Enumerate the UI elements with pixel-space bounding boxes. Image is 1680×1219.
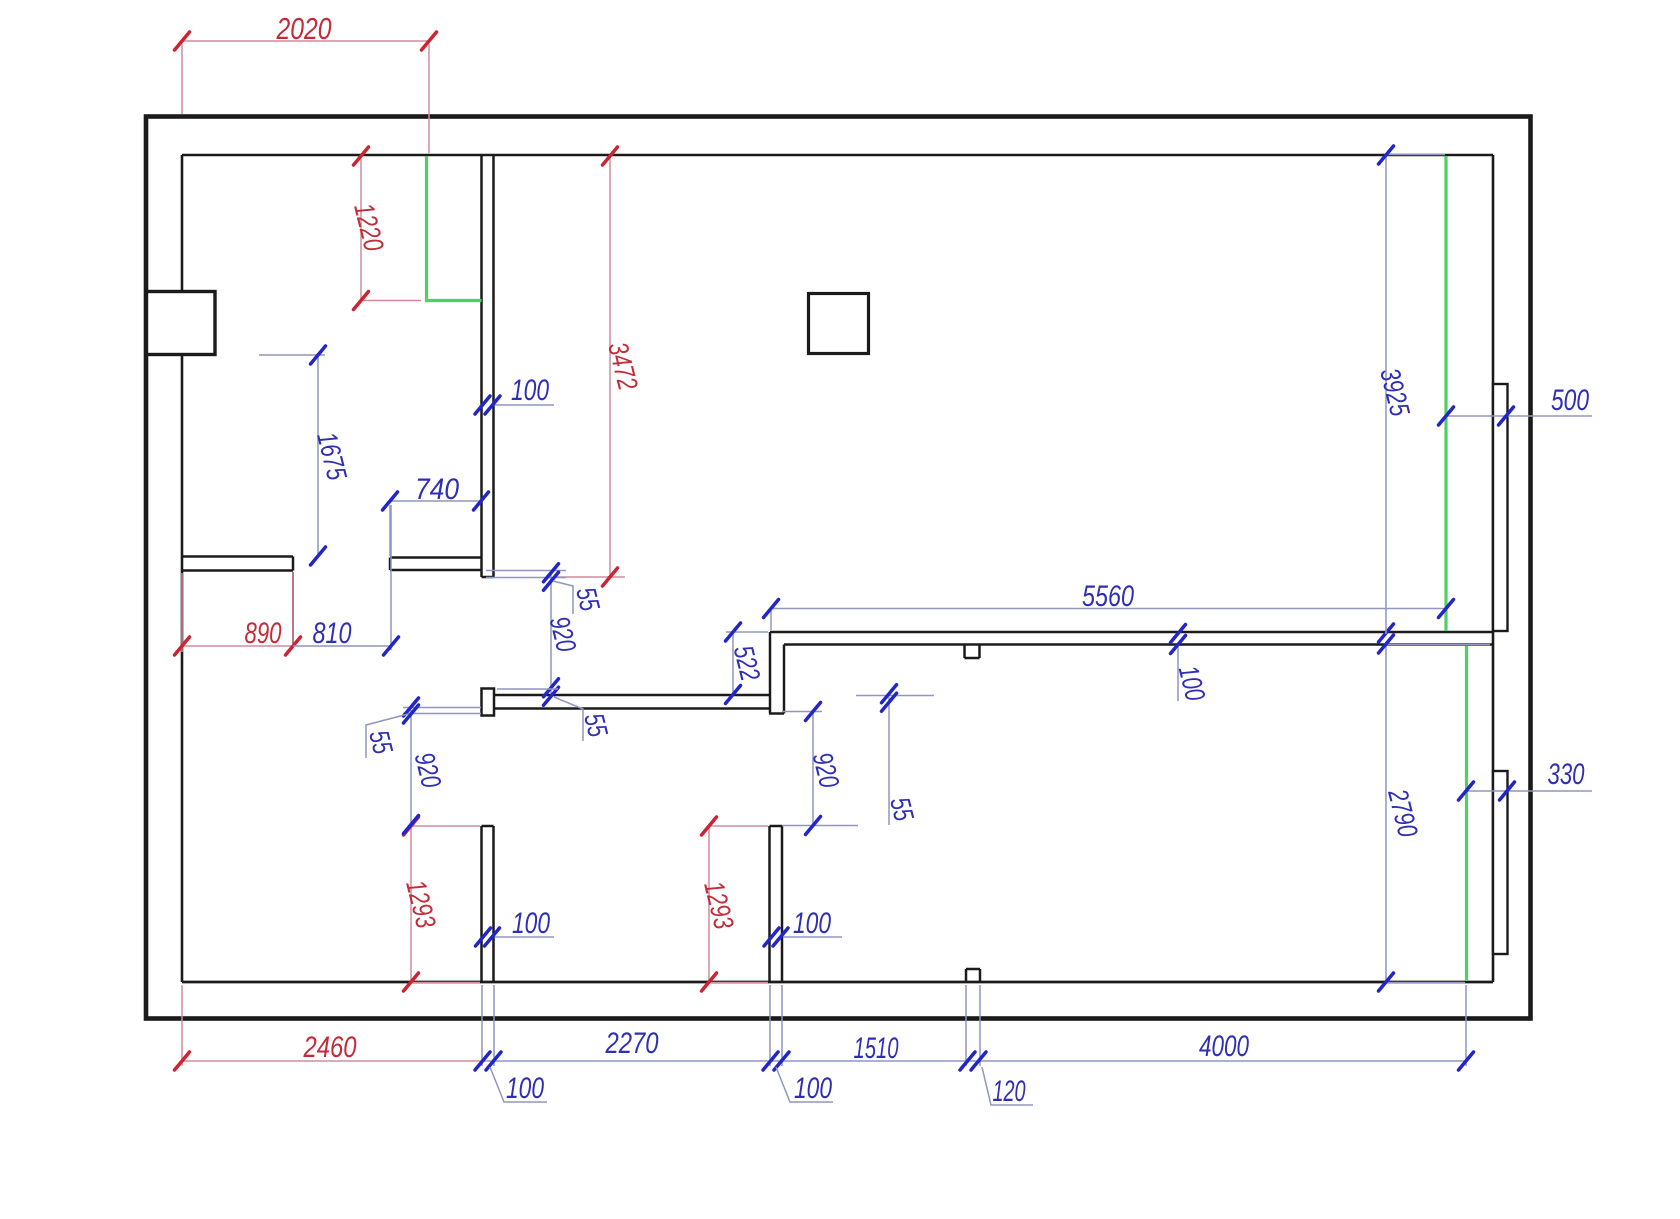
svg-text:500: 500 — [1551, 384, 1589, 417]
svg-text:890: 890 — [245, 617, 282, 650]
svg-text:100: 100 — [794, 1072, 832, 1105]
svg-text:810: 810 — [313, 617, 352, 650]
svg-text:2460: 2460 — [303, 1031, 357, 1064]
dim 100 corridor wall thickness — [1177, 647, 1179, 701]
notch on corridor upper wall — [963, 645, 966, 659]
dim 500 — [1446, 415, 1592, 417]
svg-text:2020: 2020 — [276, 11, 332, 46]
dim 2790 — [1385, 645, 1387, 982]
wall stub A (890 wall) — [182, 555, 293, 558]
dim 100 wall W1 thickness — [493, 404, 554, 406]
corridor lower wall — [494, 694, 770, 697]
svg-text:1510: 1510 — [854, 1032, 899, 1065]
corridor wall junction vertical — [769, 632, 772, 709]
svg-text:100: 100 — [506, 1072, 544, 1105]
dim 2460 — [182, 1060, 487, 1062]
svg-text:330: 330 — [1548, 758, 1585, 791]
svg-text:740: 740 — [415, 473, 459, 506]
door wall D1 (left lower) — [480, 826, 483, 982]
svg-text:5560: 5560 — [1082, 580, 1134, 613]
bottom dimension chain — [487, 1060, 1466, 1062]
corridor lower wall left cap — [482, 689, 495, 716]
window frame rect right upper — [1493, 384, 1508, 631]
dim 100 door wall left — [495, 936, 554, 938]
green window line right upper — [1444, 156, 1447, 631]
wall stub B (740 wall) — [390, 556, 482, 559]
green window line L-shape — [427, 156, 482, 301]
dim 920 left with 55 — [410, 710, 412, 825]
window frame rect right lower — [1493, 771, 1508, 954]
svg-text:100: 100 — [511, 374, 549, 407]
inner wall right — [1492, 155, 1495, 982]
dim 5560 — [771, 608, 1446, 610]
outer wall rectangle — [146, 117, 1531, 1019]
inner wall top — [182, 154, 1493, 157]
dim 1293 right — [708, 826, 710, 982]
dim 920 middle with 55/55 — [550, 571, 552, 695]
dim 1293 left — [410, 826, 412, 982]
dim 2020 — [182, 40, 429, 42]
dim 55 right — [888, 697, 890, 825]
dim 522 — [732, 632, 734, 695]
step bottom — [769, 712, 784, 715]
dim 810 — [293, 645, 391, 647]
leader 120 bottom — [982, 1067, 1033, 1105]
svg-text:120: 120 — [993, 1075, 1026, 1108]
notch on bottom wall — [965, 969, 968, 981]
inner wall bottom — [182, 981, 1493, 984]
svg-text:100: 100 — [512, 907, 550, 940]
step vertical — [783, 645, 786, 714]
svg-text:100: 100 — [793, 907, 831, 940]
dim 740 — [390, 500, 481, 502]
dim 100 door wall right — [783, 936, 842, 938]
corridor upper wall — [770, 631, 1493, 634]
green window line right lower — [1465, 646, 1468, 981]
leader 100 bottom-right — [776, 1067, 833, 1102]
dim 1220 — [360, 156, 362, 301]
svg-text:2270: 2270 — [605, 1027, 659, 1060]
partition wall W1 vertical (top middle) — [480, 155, 483, 577]
inner wall left — [181, 155, 184, 982]
dim 330 — [1466, 790, 1592, 792]
door wall D2 (right lower) — [768, 826, 771, 982]
leader 100 bottom-left — [490, 1067, 547, 1102]
svg-text:4000: 4000 — [1199, 1030, 1249, 1063]
dim 1675 — [317, 355, 319, 556]
dim 3925 — [1385, 155, 1387, 634]
dim 3472 — [609, 156, 611, 577]
wall column block left — [147, 292, 216, 355]
square pillar — [809, 294, 869, 354]
dim 890 — [182, 645, 293, 647]
dim 920 right — [812, 712, 814, 826]
